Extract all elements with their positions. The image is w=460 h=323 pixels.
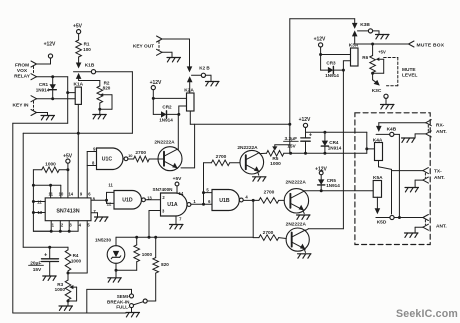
wire timing node rail <box>23 246 68 249</box>
resistor 1000 (zener bias) <box>116 237 152 270</box>
svg-text:K2 B: K2 B <box>199 66 210 71</box>
potentiometer R6 (mute level) <box>362 50 386 80</box>
transistor Q4 2N2222A <box>286 221 310 251</box>
potentiometer R3 1000 (delay) <box>55 273 77 306</box>
wire KEY OUT to K2B arm <box>162 39 190 67</box>
svg-text:K3A: K3A <box>349 42 359 48</box>
svg-text:9: 9 <box>93 147 96 152</box>
resistor R4 1000 <box>65 247 81 274</box>
switch SEMI BREAK-IN / FULL <box>87 289 147 313</box>
svg-text:K4B: K4B <box>387 127 397 133</box>
contact K5D <box>375 197 400 225</box>
svg-text:820: 820 <box>161 262 169 267</box>
power +12V terminal (VOX relay input) <box>37 42 57 65</box>
power +5V terminal (7413 pin 14) <box>63 154 73 198</box>
wire CR3 node to K3A coil pin <box>342 61 351 72</box>
wire U1B output node <box>243 199 259 202</box>
svg-text:+5V: +5V <box>173 176 182 182</box>
wire Q2 collector bus <box>260 152 367 155</box>
svg-text:K3B: K3B <box>360 22 370 28</box>
wire U1B node to Q4 branch <box>253 200 259 237</box>
svg-text:KEY OUT: KEY OUT <box>133 44 154 50</box>
svg-text:2N2222A: 2N2222A <box>286 180 307 186</box>
relay coil K3A <box>349 42 359 66</box>
wire CR2 cathode node to K2A coil pin and Q1 collector <box>177 106 186 150</box>
svg-text:1N5230: 1N5230 <box>95 237 112 242</box>
resistor 2700 (Q4 base) <box>259 230 286 241</box>
svg-text:U1D: U1D <box>122 197 133 203</box>
relay coil K4A <box>373 137 383 160</box>
svg-text:K1B: K1B <box>85 63 95 69</box>
svg-text:R6: R6 <box>362 55 368 60</box>
svg-text:7: 7 <box>93 209 96 214</box>
resistor 2700 (Q2 base) <box>211 154 240 166</box>
svg-text:+5V: +5V <box>73 24 83 30</box>
svg-text:820: 820 <box>103 85 111 90</box>
svg-text:14: 14 <box>179 191 184 196</box>
power +5V terminal (R1) <box>73 24 83 41</box>
wire U1A pin 7 stub <box>175 216 177 224</box>
transistor Q2 2N2222A <box>237 145 263 174</box>
contact K1B (normally-open, arm from R1) <box>74 57 100 86</box>
svg-text:CR2: CR2 <box>162 105 172 110</box>
svg-text:2N2222A: 2N2222A <box>154 140 175 146</box>
wire KEY IN line <box>37 97 76 100</box>
ground (KEY IN shield) <box>37 113 55 120</box>
wire U1B inputs riser to Q2 base resistor <box>204 163 212 205</box>
resistor 2700 (U1C output to Q1 base) <box>128 150 164 162</box>
svg-text:LEVEL: LEVEL <box>402 72 418 78</box>
svg-text:+5V: +5V <box>378 50 386 55</box>
relay coil K5A <box>373 175 383 197</box>
zener diode 1N5230 <box>95 237 125 271</box>
svg-text:2700: 2700 <box>263 230 274 236</box>
ground (K3B contact) <box>376 35 390 39</box>
svg-text:VOX: VOX <box>17 68 28 74</box>
svg-text:K3C: K3C <box>372 88 382 94</box>
IC U2 SN7413N <box>37 191 96 227</box>
svg-text:100: 100 <box>83 47 91 52</box>
resistor 1000 (pull-up) <box>33 161 68 172</box>
ground (K3C contact) <box>381 105 395 109</box>
svg-text:3: 3 <box>162 208 165 213</box>
svg-text:11: 11 <box>108 182 113 187</box>
wire K1A bottom to Schmitt pin 9 <box>77 104 80 197</box>
ground (U1A pin 7) <box>170 225 184 229</box>
ground (R2) <box>93 115 107 119</box>
relay coil K2A <box>184 88 194 112</box>
svg-text:8: 8 <box>92 161 95 166</box>
svg-text:+12V: +12V <box>150 80 162 86</box>
nand gate U1A <box>153 187 197 221</box>
diode CR4 1N914 <box>321 132 341 153</box>
ground (zener) <box>108 270 122 282</box>
svg-text:1000: 1000 <box>142 252 153 257</box>
svg-text:1: 1 <box>193 199 196 204</box>
svg-text:2: 2 <box>162 195 165 200</box>
ground (Q4 emitter) <box>298 250 312 258</box>
svg-text:1N914: 1N914 <box>36 88 50 93</box>
diode CR2 1N914 <box>153 105 179 123</box>
svg-text:1000: 1000 <box>71 258 82 263</box>
svg-text:RELAY: RELAY <box>14 74 31 80</box>
svg-text:FROM: FROM <box>15 63 29 69</box>
svg-text:2N2222A: 2N2222A <box>286 221 307 227</box>
wire R4 node to 7413 pin 5 <box>68 272 87 274</box>
power +5V terminal (U1 pin 14) <box>173 176 182 193</box>
ground (TX-ANT shield) <box>405 188 419 192</box>
wire +12V to K2A coil <box>152 97 187 115</box>
svg-text:MUTE BOX: MUTE BOX <box>417 42 445 48</box>
wire VOX relay line to K1A and node <box>37 75 76 123</box>
svg-text:+12V: +12V <box>299 117 311 123</box>
power +12V terminal (CR5) <box>315 166 327 179</box>
wire left bus of 7413 <box>32 170 51 232</box>
wire emitter rail / top feed vertical <box>288 19 291 154</box>
ground (K2B contact) <box>206 82 220 86</box>
svg-text:1N914: 1N914 <box>159 118 173 123</box>
ground (20uF) <box>43 276 57 280</box>
resistor 820 <box>147 237 169 301</box>
svg-text:15V: 15V <box>287 143 296 149</box>
diode CR5 1N914 <box>318 178 341 191</box>
wire ground return bus <box>13 123 126 313</box>
svg-text:14: 14 <box>68 191 73 196</box>
nand gate U1C <box>87 147 128 170</box>
contact K4B <box>376 123 401 219</box>
wire 7413 pin 12 <box>33 201 45 203</box>
wire 7413 pin 13 <box>33 212 45 214</box>
resistor R1 100 <box>76 40 91 57</box>
svg-text:ANT.: ANT. <box>436 223 447 229</box>
ground (ANT shield) <box>405 233 419 237</box>
relay coil K1A <box>73 82 83 105</box>
wire U1C inputs to Schmitt pin 6 <box>86 152 88 198</box>
svg-text:6: 6 <box>208 199 211 204</box>
wire zener node rail <box>116 236 253 239</box>
svg-text:2700: 2700 <box>135 150 146 156</box>
svg-text:SN7413N: SN7413N <box>56 208 79 214</box>
connector RX-ANT <box>379 120 447 138</box>
svg-text:1N914: 1N914 <box>326 183 340 188</box>
wire MUTE BOX node to R6 <box>371 43 374 56</box>
wire K2A coil bottom to Q1 emitter rail <box>181 111 290 168</box>
wire +12V K4 line <box>306 131 367 138</box>
power +12V terminal (K3 coil) <box>314 37 326 55</box>
wire 7413 bottom pins 1-4 tie <box>33 221 78 233</box>
capacitor 3.3uF 15V <box>284 133 313 154</box>
ground (RX-ANT shield) <box>402 138 416 142</box>
svg-text:SN7400N: SN7400N <box>153 187 174 192</box>
connector MUTE BOX <box>355 41 445 48</box>
svg-text:1N914: 1N914 <box>328 145 342 150</box>
contact arm K2A (from coil) <box>187 76 193 93</box>
svg-text:3: 3 <box>69 223 72 228</box>
svg-text:MUTE: MUTE <box>402 67 416 73</box>
wire U1A pin3 to timing rail <box>149 211 161 238</box>
svg-text:4: 4 <box>79 223 82 228</box>
svg-text:+12V: +12V <box>44 42 56 48</box>
svg-text:10: 10 <box>128 153 133 158</box>
svg-text:2700: 2700 <box>264 190 275 196</box>
ground (R3) <box>59 306 73 310</box>
wire U1A output to U1B inputs node <box>191 188 212 206</box>
connector ANT <box>399 215 446 233</box>
ground (7413 pin 7) <box>95 217 109 221</box>
ground (Q3 emitter) <box>297 211 311 219</box>
svg-text:9: 9 <box>80 191 83 196</box>
svg-text:1N914: 1N914 <box>325 73 339 78</box>
svg-text:8: 8 <box>93 197 96 202</box>
wire U1D output to U1A input <box>145 199 160 201</box>
svg-text:11: 11 <box>48 191 53 196</box>
wire K5 coil bus <box>304 189 373 192</box>
svg-text:1000: 1000 <box>55 287 66 292</box>
wire K1B to logic input node <box>96 72 133 134</box>
nand gate U1D <box>105 182 152 209</box>
potentiometer R2 820 <box>97 81 112 115</box>
svg-text:+12V: +12V <box>314 37 326 43</box>
wire +12V to K3A coil <box>319 53 350 70</box>
dashed enclosure (antenna relay unit) <box>355 113 430 245</box>
connector KEY IN <box>13 96 37 116</box>
svg-text:+: + <box>44 253 47 259</box>
svg-text:ANT.: ANT. <box>436 129 447 135</box>
ground (Q2 emitter) <box>253 172 267 181</box>
capacitor 20uF 15V <box>29 247 59 275</box>
connector KEY OUT <box>133 36 162 55</box>
svg-text:CR1: CR1 <box>39 82 49 87</box>
svg-text:RX-: RX- <box>436 123 445 129</box>
wire 7413 pin 5 to timing node <box>86 221 88 273</box>
diode CR1 1N914 <box>36 77 57 99</box>
svg-text:SeekIC.com: SeekIC.com <box>396 308 458 320</box>
wire K4A bottom to TX node <box>379 161 392 170</box>
nand gate U1B <box>212 190 248 211</box>
svg-text:U1C: U1C <box>102 157 113 163</box>
diode CR3 1N914 <box>321 60 344 78</box>
ground (switch) <box>126 313 140 317</box>
svg-text:K5D: K5D <box>377 220 387 226</box>
contact K3C <box>372 80 388 105</box>
power +12V terminal (K4 line) <box>299 117 311 133</box>
svg-text:BREAK-IN: BREAK-IN <box>107 299 130 304</box>
svg-text:FULL-: FULL- <box>116 305 130 310</box>
connector FROM VOX RELAY <box>14 61 36 80</box>
svg-text:U1A: U1A <box>167 202 178 208</box>
wire Q4 collector to K3 drive line <box>306 70 344 230</box>
wire logic input top rail <box>23 133 132 247</box>
svg-text:KEY IN: KEY IN <box>13 103 29 109</box>
contact K3B <box>352 22 379 44</box>
svg-text:U1B: U1B <box>219 198 230 204</box>
contact K2B <box>187 66 211 82</box>
svg-text:5: 5 <box>87 223 90 228</box>
svg-text:4: 4 <box>245 195 248 200</box>
svg-text:2N2222A: 2N2222A <box>237 145 258 151</box>
svg-text:1000: 1000 <box>270 161 281 167</box>
wire K4 coil feed <box>365 132 374 153</box>
wire 7413 pin 7 to ground <box>91 213 98 217</box>
svg-text:5: 5 <box>206 188 209 193</box>
wire 7413 pin 8 to U1D inputs <box>91 199 107 201</box>
svg-text:6: 6 <box>88 191 91 196</box>
ground (KEY OUT shield) <box>162 52 181 62</box>
svg-text:2: 2 <box>61 223 64 228</box>
svg-text:7: 7 <box>179 217 182 222</box>
svg-text:CR3: CR3 <box>326 60 336 65</box>
svg-text:R1: R1 <box>84 42 90 47</box>
wire TX feed vertical <box>392 169 423 214</box>
dashed link MUTE LEVEL <box>384 58 418 86</box>
connector TX-ANT <box>415 168 445 188</box>
wire top rail to K3B arm <box>290 19 355 23</box>
transistor Q1 2N2222A <box>154 140 182 171</box>
svg-text:1: 1 <box>52 223 55 228</box>
transistor Q3 2N2222A <box>284 180 308 213</box>
rheostat R5 1000 <box>267 145 290 167</box>
svg-text:15V: 15V <box>33 267 42 273</box>
resistor 2700 (Q3 base) <box>259 190 284 204</box>
power +12V terminal (K2 coil) <box>150 80 162 98</box>
svg-text:12: 12 <box>107 202 112 207</box>
svg-text:TX-: TX- <box>434 169 442 175</box>
svg-text:ANT.: ANT. <box>434 175 445 181</box>
watermark SeekIC.com <box>396 308 458 320</box>
svg-text:SEMI-: SEMI- <box>117 294 130 299</box>
wire 7413 pins 10,11 tie <box>33 184 60 198</box>
svg-text:10: 10 <box>59 191 64 196</box>
